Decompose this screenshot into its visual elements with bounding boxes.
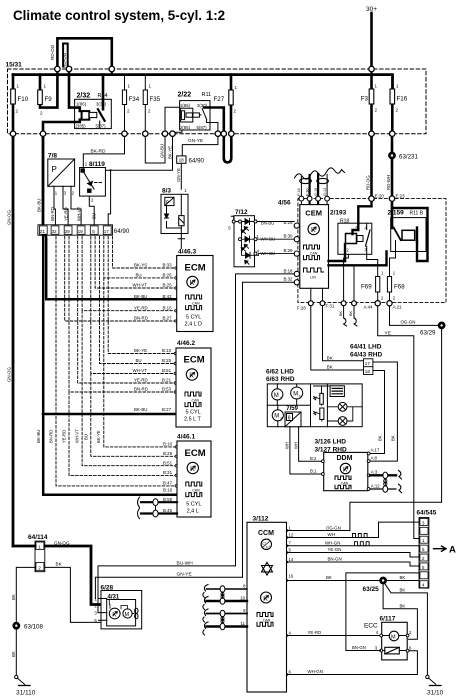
fuse F27 xyxy=(214,75,238,134)
svg-text:YE-RD: YE-RD xyxy=(61,430,66,443)
wire col to ECM1 BN-RD xyxy=(65,237,175,322)
wire E:23 thick into 2/159 xyxy=(391,199,394,228)
svg-text:B:29: B:29 xyxy=(283,248,293,253)
svg-text:B:10: B:10 xyxy=(163,442,173,447)
wire BN-RD 7/8 pin1 to 64/90-32 xyxy=(54,196,55,225)
wire BK 64/114 pin2 to ground xyxy=(16,567,35,675)
svg-text:BK: BK xyxy=(390,435,395,441)
svg-text:GN-OG: GN-OG xyxy=(6,367,11,382)
svg-text:E:20: E:20 xyxy=(375,194,385,199)
svg-text:BN-RD: BN-RD xyxy=(50,207,55,221)
svg-text:E:23: E:23 xyxy=(396,194,406,199)
wire col to ECM1 BK-YE xyxy=(113,237,176,269)
svg-text:31/110: 31/110 xyxy=(16,690,36,697)
CCM right pin numbers xyxy=(289,525,294,674)
wire col to ECM3 B:47 xyxy=(56,237,175,486)
svg-text:F:30: F:30 xyxy=(305,188,309,196)
wire BK 63/25 to ground 31/10 xyxy=(385,583,428,677)
svg-text:CCM: CCM xyxy=(258,530,274,537)
svg-text:63/25: 63/25 xyxy=(363,586,380,593)
wire col to ECM2 BK-YE xyxy=(108,237,175,354)
svg-text:YE-RD: YE-RD xyxy=(134,378,148,383)
svg-text:B:47: B:47 xyxy=(163,481,173,486)
wire col to ECM2 YE-RD xyxy=(78,237,175,384)
svg-text:BK: BK xyxy=(11,594,16,600)
svg-text:BN-RD: BN-RD xyxy=(134,387,148,392)
svg-text:BK-YE: BK-YE xyxy=(167,146,172,159)
svg-text:LIN: LIN xyxy=(310,276,316,280)
ECM block 4/46.2 xyxy=(176,340,211,427)
svg-text:63/29: 63/29 xyxy=(420,330,436,337)
svg-text:WH-BU: WH-BU xyxy=(261,251,276,256)
fuse F10 xyxy=(11,75,29,134)
fuse F68 xyxy=(387,271,405,302)
DDM module 3/126 xyxy=(315,439,371,491)
wire YE A:44 to 64/545-1 xyxy=(378,306,419,539)
wire BN-GN ECC pin3 to 64/545 xyxy=(346,573,419,651)
svg-text:64/90: 64/90 xyxy=(114,228,130,235)
svg-text:BK-YE: BK-YE xyxy=(96,430,101,443)
CCM left pins thick wires with connectors xyxy=(207,588,248,590)
svg-text:2: 2 xyxy=(38,565,41,570)
wire RD-OG top loop from other page xyxy=(57,38,111,69)
svg-text:F9: F9 xyxy=(45,96,53,103)
svg-text:5(87): 5(87) xyxy=(197,125,208,130)
svg-text:BU: BU xyxy=(136,273,142,278)
wire thick frame around 2/159 xyxy=(392,208,428,261)
svg-text:ECM: ECM xyxy=(185,448,206,459)
wire GN-OG left spine F10 to 64/114 xyxy=(12,134,15,546)
fuse F3 xyxy=(361,75,378,134)
svg-text:19: 19 xyxy=(78,229,84,234)
wire BK 63/25 to 64/545-4 xyxy=(387,580,420,582)
circles on 4/56 bottom dashed row xyxy=(308,301,392,306)
svg-text:YE-GN: YE-GN xyxy=(328,547,342,552)
svg-text:F35: F35 xyxy=(150,96,161,103)
svg-text:A:8: A:8 xyxy=(371,455,378,460)
svg-text:31/10: 31/10 xyxy=(427,690,444,697)
ECM2 wire labels xyxy=(133,348,172,412)
relay 2/32 xyxy=(43,75,111,134)
arrow to A xyxy=(434,546,447,551)
CEM top twisted-wire stubs F:16 F:30 G:15 G:14 xyxy=(295,168,345,196)
wire WH-GN CCM pin6 to ECC pin6 xyxy=(288,651,417,675)
svg-text:RD-OG: RD-OG xyxy=(50,44,55,60)
svg-text:11: 11 xyxy=(241,621,246,626)
svg-text:B:10: B:10 xyxy=(162,348,172,353)
svg-text:B:27: B:27 xyxy=(163,316,173,321)
svg-text:GN-YE: GN-YE xyxy=(176,168,181,182)
svg-text:RD-OG: RD-OG xyxy=(366,175,371,190)
wire col to ECM2 BU xyxy=(100,237,176,364)
svg-text:P: P xyxy=(166,200,169,205)
svg-text:BK-BU: BK-BU xyxy=(36,199,41,212)
wire 2/159 coil ground stub xyxy=(353,265,355,302)
svg-text:G:14: G:14 xyxy=(323,188,327,196)
svg-text:2/32: 2/32 xyxy=(77,93,91,100)
svg-text:BK: BK xyxy=(400,603,406,608)
svg-text:2/159: 2/159 xyxy=(388,210,405,217)
wire OG-GN A:21 to 63/29 xyxy=(390,306,439,326)
svg-text:F:16: F:16 xyxy=(297,188,301,196)
svg-text:GN-YE: GN-YE xyxy=(177,572,192,578)
svg-text:F16: F16 xyxy=(397,96,408,103)
svg-text:WH-GN: WH-GN xyxy=(308,669,323,674)
wire col to ECM1 BU and ECM3 B:10 xyxy=(104,237,175,447)
wire WH DDM B:1 to heater xyxy=(290,427,321,474)
wire RD-BU U-loop below F27 xyxy=(224,134,232,163)
svg-text:B:16: B:16 xyxy=(163,487,173,492)
svg-text:7/8: 7/8 xyxy=(48,153,57,160)
svg-text:B:1: B:1 xyxy=(310,469,317,474)
svg-text:12: 12 xyxy=(289,532,294,537)
svg-text:BK-YS: BK-YS xyxy=(134,263,147,268)
svg-text:B:58: B:58 xyxy=(163,497,173,502)
wire F35 to relay 2/22 coil GN-BU xyxy=(145,107,179,163)
svg-text:B:42: B:42 xyxy=(163,294,173,299)
svg-text:GN-OG: GN-OG xyxy=(54,540,70,545)
svg-text:BU: BU xyxy=(91,213,96,219)
wire 30+ vertical xyxy=(370,13,373,69)
svg-text:BK: BK xyxy=(339,310,343,316)
svg-text:GN-OG: GN-OG xyxy=(6,210,11,225)
svg-text:B:33: B:33 xyxy=(163,263,173,268)
CCM module 3/112 xyxy=(247,516,287,693)
svg-text:B:21: B:21 xyxy=(162,378,172,383)
thermostat 8/119 xyxy=(80,161,106,203)
svg-text:F:31: F:31 xyxy=(326,304,335,309)
svg-text:BK: BK xyxy=(400,575,406,580)
svg-text:CAN: CAN xyxy=(192,399,200,403)
svg-text:GN-YE: GN-YE xyxy=(188,138,203,144)
ground 31/110 xyxy=(15,675,36,696)
svg-text:WH: WH xyxy=(328,532,335,537)
wire CEM F:28 to 64/41 pin18 xyxy=(311,288,364,370)
svg-text:RD-WH: RD-WH xyxy=(386,175,391,190)
svg-text:BN-GN: BN-GN xyxy=(352,645,366,650)
svg-text:5 CYL: 5 CYL xyxy=(186,410,201,416)
svg-text:CEM: CEM xyxy=(305,208,322,217)
svg-text:BN-RD: BN-RD xyxy=(48,430,53,443)
wire 2/159 out to fuse F68 xyxy=(390,252,396,277)
svg-text:F°: F° xyxy=(266,545,270,549)
svg-text:M: M xyxy=(391,635,396,641)
wire CEM B:18 to 6/28 area BU-WH xyxy=(236,274,295,566)
wire GN-YE label and drop to 6/28 pin1 xyxy=(95,577,242,598)
wire BK 63/25 to ECC pin2 xyxy=(383,584,417,639)
relay 2/22 xyxy=(178,92,224,134)
wire BK-RD F34 to 8/119 pin 1 xyxy=(83,134,124,168)
svg-text:BK-YE: BK-YE xyxy=(134,348,147,353)
svg-text:BK: BK xyxy=(11,651,16,657)
svg-text:BK: BK xyxy=(327,365,333,370)
connector 18 64/90 xyxy=(177,156,205,165)
svg-text:2(85): 2(85) xyxy=(180,125,191,130)
svg-text:B:26: B:26 xyxy=(163,273,173,278)
svg-text:7/12: 7/12 xyxy=(235,209,248,216)
svg-text:32: 32 xyxy=(52,229,58,234)
svg-text:A:21: A:21 xyxy=(393,305,403,310)
connector row 64/90 xyxy=(38,225,130,235)
connector 63/231 xyxy=(389,152,396,159)
svg-text:8/3: 8/3 xyxy=(162,188,171,195)
svg-text:ECC: ECC xyxy=(364,623,378,630)
wire col to ECM1 WH-VT xyxy=(95,237,175,289)
CEM 4/56 dashed boundary xyxy=(298,199,446,303)
wire DDM A:3 thick stub with connector hooks xyxy=(370,474,396,476)
svg-text:21: 21 xyxy=(40,229,46,234)
svg-text:BU-WH: BU-WH xyxy=(177,560,194,566)
svg-text:WH-VT: WH-VT xyxy=(75,429,80,443)
svg-text:1(86): 1(86) xyxy=(76,102,87,107)
twilight sensor 7/12 xyxy=(228,209,254,267)
wire YE-RD CCM pin4 to ECC pin4 xyxy=(288,635,381,637)
wire 2/193 pin2 ground stub xyxy=(344,254,349,302)
svg-text:F10: F10 xyxy=(18,96,29,103)
junction circles redraw on top xyxy=(10,66,395,306)
wire RD-OG F3 to CEM E:20 xyxy=(370,134,373,197)
wire BU-WH label and drop to 6/28 pin3 xyxy=(98,566,236,613)
svg-text:YE: YE xyxy=(385,330,391,336)
svg-text:F:28: F:28 xyxy=(297,306,306,311)
wire RD-WH F16 to CEM E:23 xyxy=(391,134,394,197)
svg-text:14: 14 xyxy=(289,557,294,562)
wire 2/193 pin3 to fuse F69 xyxy=(367,254,378,276)
svg-text:ECM: ECM xyxy=(185,263,206,274)
svg-text:7/59: 7/59 xyxy=(286,406,298,412)
svg-text:18: 18 xyxy=(179,158,185,163)
svg-text:B:25: B:25 xyxy=(162,358,172,363)
svg-text:15/31: 15/31 xyxy=(6,62,23,69)
svg-text:P: P xyxy=(52,165,57,174)
wire WH-VT 7/8 pin2 to 64/90-19 xyxy=(71,196,81,225)
svg-text:F68: F68 xyxy=(394,284,405,291)
svg-text:2,5 L T: 2,5 L T xyxy=(184,417,201,423)
svg-text:R11 B: R11 B xyxy=(410,211,424,217)
ECM pin terminal circles xyxy=(174,267,177,487)
ground 31/10 xyxy=(426,675,444,696)
wire BK-BU thick branch to ECM1 B:42 xyxy=(46,235,177,299)
svg-text:B:30: B:30 xyxy=(283,234,293,239)
svg-text:YE-RD: YE-RD xyxy=(134,305,148,310)
svg-text:BK: BK xyxy=(56,561,63,566)
svg-text:B:18: B:18 xyxy=(283,268,293,273)
svg-text:B:53: B:53 xyxy=(162,387,172,392)
connector 63/25 xyxy=(380,577,387,584)
svg-text:4/46.2: 4/46.2 xyxy=(177,340,195,347)
svg-text:10: 10 xyxy=(240,596,245,601)
svg-text:ECM: ECM xyxy=(184,355,205,366)
svg-text:29: 29 xyxy=(65,229,71,234)
wire col to ECM2 BN-RD and ECM3 B:31 xyxy=(69,237,175,476)
svg-text:B:25: B:25 xyxy=(163,283,173,288)
svg-text:BK: BK xyxy=(326,575,332,580)
svg-text:OG-GN: OG-GN xyxy=(401,319,416,324)
svg-text:F27: F27 xyxy=(214,96,225,103)
svg-text:2,4 L: 2,4 L xyxy=(187,509,199,515)
svg-text:A: A xyxy=(449,545,456,556)
svg-text:A:12: A:12 xyxy=(371,483,380,488)
rotated wire colour labels lower bundle xyxy=(48,429,101,443)
svg-text:B:16: B:16 xyxy=(163,305,173,310)
connector 63/108 xyxy=(13,622,20,629)
wire BN-GN CCM pin14 to 64/545-5 xyxy=(288,562,419,566)
svg-text:64/545: 64/545 xyxy=(417,510,437,517)
svg-text:CAN: CAN xyxy=(263,618,271,622)
svg-text:8/119: 8/119 xyxy=(89,161,105,168)
svg-text:BN-RD: BN-RD xyxy=(134,316,148,321)
wire YE-GN CCM pin5 to 64/545-2 xyxy=(288,553,419,558)
svg-text:BU: BU xyxy=(84,434,89,440)
wire DDM A:12 stub with connector hooks xyxy=(370,488,396,490)
svg-text:OG-GN: OG-GN xyxy=(326,525,341,530)
wire main bus 15/31 xyxy=(13,75,393,89)
svg-text:4/46.1: 4/46.1 xyxy=(177,434,195,441)
svg-text:4/56: 4/56 xyxy=(278,200,291,207)
svg-text:3(30): 3(30) xyxy=(96,102,107,107)
svg-text:6/63 RHD: 6/63 RHD xyxy=(266,376,295,383)
wire BK CCM pin16 to 63/25 xyxy=(288,580,380,582)
wire col to ECM1 YE-RD and ECM3 B:51 xyxy=(82,237,175,466)
svg-text:6/117: 6/117 xyxy=(380,616,396,623)
ECM block 4/46.1 xyxy=(177,434,211,518)
svg-text:WH-VT: WH-VT xyxy=(133,283,148,288)
svg-text:CAN: CAN xyxy=(192,489,200,493)
fuse F9 xyxy=(38,75,58,116)
svg-text:M: M xyxy=(274,414,279,420)
svg-text:CAN: CAN xyxy=(192,302,200,306)
svg-text:Climate control system, 5-cyl.: Climate control system, 5-cyl. 1:2 xyxy=(13,8,225,23)
wire BU 8/119 pin2 to 64/90-5 xyxy=(89,199,94,225)
svg-text:64/43 RHD: 64/43 RHD xyxy=(350,352,382,359)
svg-text:5 CYL: 5 CYL xyxy=(186,502,201,508)
wire BK-BU thick branch to ECM2 B:27 xyxy=(43,413,176,416)
svg-text:2/193: 2/193 xyxy=(330,210,347,217)
svg-text:2/22: 2/22 xyxy=(178,92,192,99)
svg-text:BK: BK xyxy=(327,355,333,360)
svg-text:BK: BK xyxy=(349,310,353,316)
svg-text:BK: BK xyxy=(378,435,383,441)
wire E:20 thick to 2/193 coil xyxy=(353,199,372,234)
svg-text:5: 5 xyxy=(92,229,95,234)
svg-text:BK-BU: BK-BU xyxy=(36,430,41,443)
wire 64/41-18 to DDM A:17 xyxy=(370,371,385,454)
fusebox 15/31 dashed border xyxy=(8,69,427,134)
wire GN-YE relay 2/22 output to 18/64-90 xyxy=(182,123,218,156)
svg-text:WH-GN: WH-GN xyxy=(325,540,340,545)
svg-text:2,4 L D: 2,4 L D xyxy=(185,322,203,328)
CCM pin wedges xyxy=(287,529,290,532)
svg-text:BU: BU xyxy=(136,358,142,363)
svg-text:2(85): 2(85) xyxy=(76,124,87,129)
relay 2/159 xyxy=(388,210,427,252)
junction circles on 15/31 top dashed row xyxy=(55,66,374,71)
fuse F16 xyxy=(390,84,408,134)
svg-text:63/231: 63/231 xyxy=(399,153,418,160)
svg-text:BN-GN: BN-GN xyxy=(328,557,342,562)
svg-text:16: 16 xyxy=(289,573,294,578)
svg-text:M: M xyxy=(293,391,298,397)
CEM box 2/193? no: CEM unit box xyxy=(300,205,329,289)
svg-text:WH-VT: WH-VT xyxy=(77,206,82,221)
fuse F69 xyxy=(361,271,384,302)
CEM left pin terminals xyxy=(294,223,299,285)
wire GN-YE to 8/3 xyxy=(180,163,182,189)
svg-text:64/114: 64/114 xyxy=(28,534,48,541)
blower unit 6/28 with fan motor 4/31 xyxy=(94,585,141,629)
ECC unit 6/117 xyxy=(364,616,412,660)
svg-text:6/62 LHD: 6/62 LHD xyxy=(266,369,294,376)
svg-text:YE-RD: YE-RD xyxy=(308,630,322,635)
svg-text:M: M xyxy=(274,393,279,399)
twisted pair link xyxy=(384,479,386,487)
wire CEM B:32 to 6/28 area GN-YE xyxy=(243,282,295,577)
svg-text:BK: BK xyxy=(400,588,406,593)
ECM1 wire labels xyxy=(133,263,173,321)
wire YE-RD 7/8 pin3 to 64/90-29 xyxy=(63,196,68,225)
svg-text:B:25: B:25 xyxy=(283,220,293,225)
svg-text:B:51: B:51 xyxy=(163,460,173,465)
svg-text:CAN: CAN xyxy=(310,252,318,256)
svg-text:64/41 LHD: 64/41 LHD xyxy=(350,344,382,351)
junction circles on 15/31 bottom dashed row xyxy=(10,131,394,136)
svg-text:5(87): 5(87) xyxy=(96,124,107,129)
svg-text:BK-RD: BK-RD xyxy=(91,148,106,154)
svg-text:WH-VT: WH-VT xyxy=(133,368,148,373)
connector 64/114 xyxy=(28,534,48,572)
svg-text:3/112: 3/112 xyxy=(253,516,269,523)
svg-text:R11: R11 xyxy=(202,92,212,98)
ECM block 4/46.3 xyxy=(177,249,213,332)
wire CAN twisted pair ECM3 B:58 xyxy=(141,502,177,513)
sensor 8/3 xyxy=(161,188,188,249)
relay 2/193 xyxy=(330,210,372,255)
svg-text:F3: F3 xyxy=(361,96,369,103)
svg-text:M: M xyxy=(125,612,130,618)
wire BK-YE relay 2/22 coil to 8/119 and 64/90-17 xyxy=(105,130,182,225)
svg-text:F34: F34 xyxy=(129,96,140,103)
svg-text:B:51: B:51 xyxy=(162,368,172,373)
ECM3 pin labels xyxy=(163,442,173,514)
pressure sensor 7/8 xyxy=(48,153,75,197)
svg-text:18: 18 xyxy=(365,369,371,374)
svg-text:4/46.3: 4/46.3 xyxy=(178,249,196,256)
connector 64/41 LHD / 64/43 RHD xyxy=(350,344,382,375)
svg-text:B:32: B:32 xyxy=(283,277,293,282)
connector 63/29 xyxy=(438,322,445,329)
svg-text:RD-OG: RD-OG xyxy=(62,52,67,68)
ground continuation squiggles below dashed xyxy=(344,306,347,327)
svg-text:B:2: B:2 xyxy=(310,456,317,461)
wire GN-OG 64/114 to 6/28 pin2 thick xyxy=(13,546,107,605)
svg-text:F: F xyxy=(299,394,301,398)
svg-text:B:31: B:31 xyxy=(163,470,173,475)
dashed wire grid 64/90 to ECMs xyxy=(56,237,175,486)
svg-text:BN-BU: BN-BU xyxy=(261,220,274,225)
heater unit 6/62 LHD 6/63 RHD xyxy=(266,369,362,427)
svg-text:A:17: A:17 xyxy=(371,447,380,452)
svg-text:CAN: CAN xyxy=(341,481,349,485)
wire col to ECM2 WH-VT and ECM3 B:28 xyxy=(91,237,175,457)
svg-text:BK-BU: BK-BU xyxy=(134,407,147,412)
wire WH LIN CCM pin12 to 64/545-3 xyxy=(288,522,419,537)
svg-text:WH: WH xyxy=(285,442,290,449)
wire BK-BU thick spine below connector xyxy=(43,235,177,495)
junction stubs at dashed row xyxy=(57,69,371,75)
svg-text:GN-BU: GN-BU xyxy=(160,144,165,158)
svg-text:B:28: B:28 xyxy=(163,451,173,456)
fuse F35 xyxy=(143,75,161,134)
